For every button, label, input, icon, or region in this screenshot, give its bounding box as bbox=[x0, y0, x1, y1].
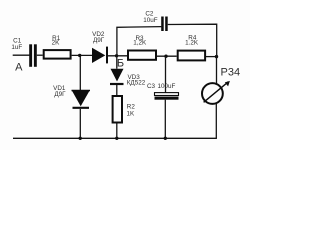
capacitor C3 polarized bbox=[155, 93, 179, 100]
label VD2 bbox=[92, 31, 105, 38]
wire C3 branch from junction down bbox=[165, 56, 167, 93]
junction bottom R2 bbox=[115, 137, 118, 140]
capacitor C2 bbox=[161, 17, 168, 32]
junction bottom C3 bbox=[164, 137, 167, 140]
label C2 value 10uF bbox=[143, 17, 158, 24]
wire C1 to R1 bbox=[37, 54, 43, 56]
svg-text:2K: 2K bbox=[52, 40, 61, 47]
junction node VD1 branch bbox=[78, 54, 81, 57]
wire meter to bottom rail bbox=[215, 103, 217, 139]
label VD2 type Д9Г bbox=[93, 37, 105, 44]
label R3 value 1,2K bbox=[133, 40, 147, 47]
diode VD3 bbox=[110, 69, 124, 84]
label VD3 bbox=[127, 74, 140, 81]
label C2 bbox=[145, 10, 154, 17]
junction node meter branch bbox=[215, 55, 218, 58]
diode VD1 bbox=[72, 91, 91, 108]
wire Б node down to VD3 bbox=[116, 56, 118, 69]
svg-text:1,2K: 1,2K bbox=[133, 40, 147, 47]
wire R3 to R4 bbox=[157, 55, 177, 57]
wire C2 to right corner and down bbox=[168, 24, 217, 56]
label C1 value 1uF bbox=[11, 44, 22, 51]
wire Б node up to C2 corner bbox=[117, 27, 161, 56]
wire C3 to bottom rail bbox=[164, 100, 166, 139]
wire input A to C1 bbox=[13, 54, 30, 56]
label VD3 type КД522 bbox=[127, 79, 146, 86]
resistor R3 bbox=[128, 51, 156, 60]
svg-text:C3: C3 bbox=[147, 83, 156, 90]
wire VD2 to R3 bbox=[108, 55, 127, 57]
label R4 value 1.2K bbox=[185, 39, 199, 46]
label R4 bbox=[188, 34, 197, 41]
svg-text:100uF: 100uF bbox=[157, 83, 175, 90]
node Б label bbox=[117, 58, 124, 70]
resistor R2 bbox=[113, 96, 122, 123]
svg-text:Р34: Р34 bbox=[221, 67, 241, 79]
label VD1 bbox=[53, 85, 66, 92]
svg-text:Д9Г: Д9Г bbox=[54, 91, 66, 98]
meter P34 bbox=[202, 81, 230, 104]
label R1 bbox=[52, 35, 61, 42]
junction bottom VD1 bbox=[79, 137, 82, 140]
wire meter branch vertical upper bbox=[216, 57, 218, 85]
wire VD3 to R2 bbox=[116, 85, 118, 95]
svg-text:КД522: КД522 bbox=[127, 79, 146, 86]
svg-text:Б: Б bbox=[117, 58, 124, 70]
resistor R1 bbox=[44, 50, 71, 59]
wire VD1 branch vertical bbox=[79, 55, 81, 90]
label meter Р34 bbox=[221, 67, 241, 79]
wire R1 to VD2 bbox=[72, 54, 92, 56]
wire R4 to right vertical bbox=[206, 56, 217, 58]
label C3 value 100uF bbox=[157, 83, 175, 90]
junction node Б bbox=[115, 54, 118, 57]
node A bbox=[15, 62, 23, 74]
bottom rail wire bbox=[13, 137, 217, 139]
label C1 bbox=[13, 38, 22, 45]
resistor R4 bbox=[178, 51, 205, 61]
label R2 value 1K bbox=[127, 111, 136, 118]
svg-text:1K: 1K bbox=[127, 111, 136, 118]
svg-text:A: A bbox=[15, 62, 23, 74]
svg-text:10uF: 10uF bbox=[143, 17, 158, 24]
svg-text:R2: R2 bbox=[127, 103, 136, 110]
wire R2 to bottom rail bbox=[116, 124, 118, 139]
label R2 bbox=[127, 103, 136, 110]
label R3 bbox=[135, 35, 144, 42]
svg-text:Д9Г: Д9Г bbox=[93, 37, 105, 44]
diode VD2 bbox=[92, 47, 107, 64]
wire VD1 to bottom rail bbox=[79, 109, 81, 138]
svg-text:1uF: 1uF bbox=[11, 44, 22, 51]
label C3 bbox=[147, 83, 156, 90]
svg-text:1.2K: 1.2K bbox=[185, 39, 199, 46]
label R1 value 2K bbox=[52, 40, 61, 47]
label VD1 type Д9Г bbox=[54, 91, 66, 98]
capacitor C1 bbox=[29, 44, 37, 67]
junction node C3 branch bbox=[164, 55, 167, 58]
